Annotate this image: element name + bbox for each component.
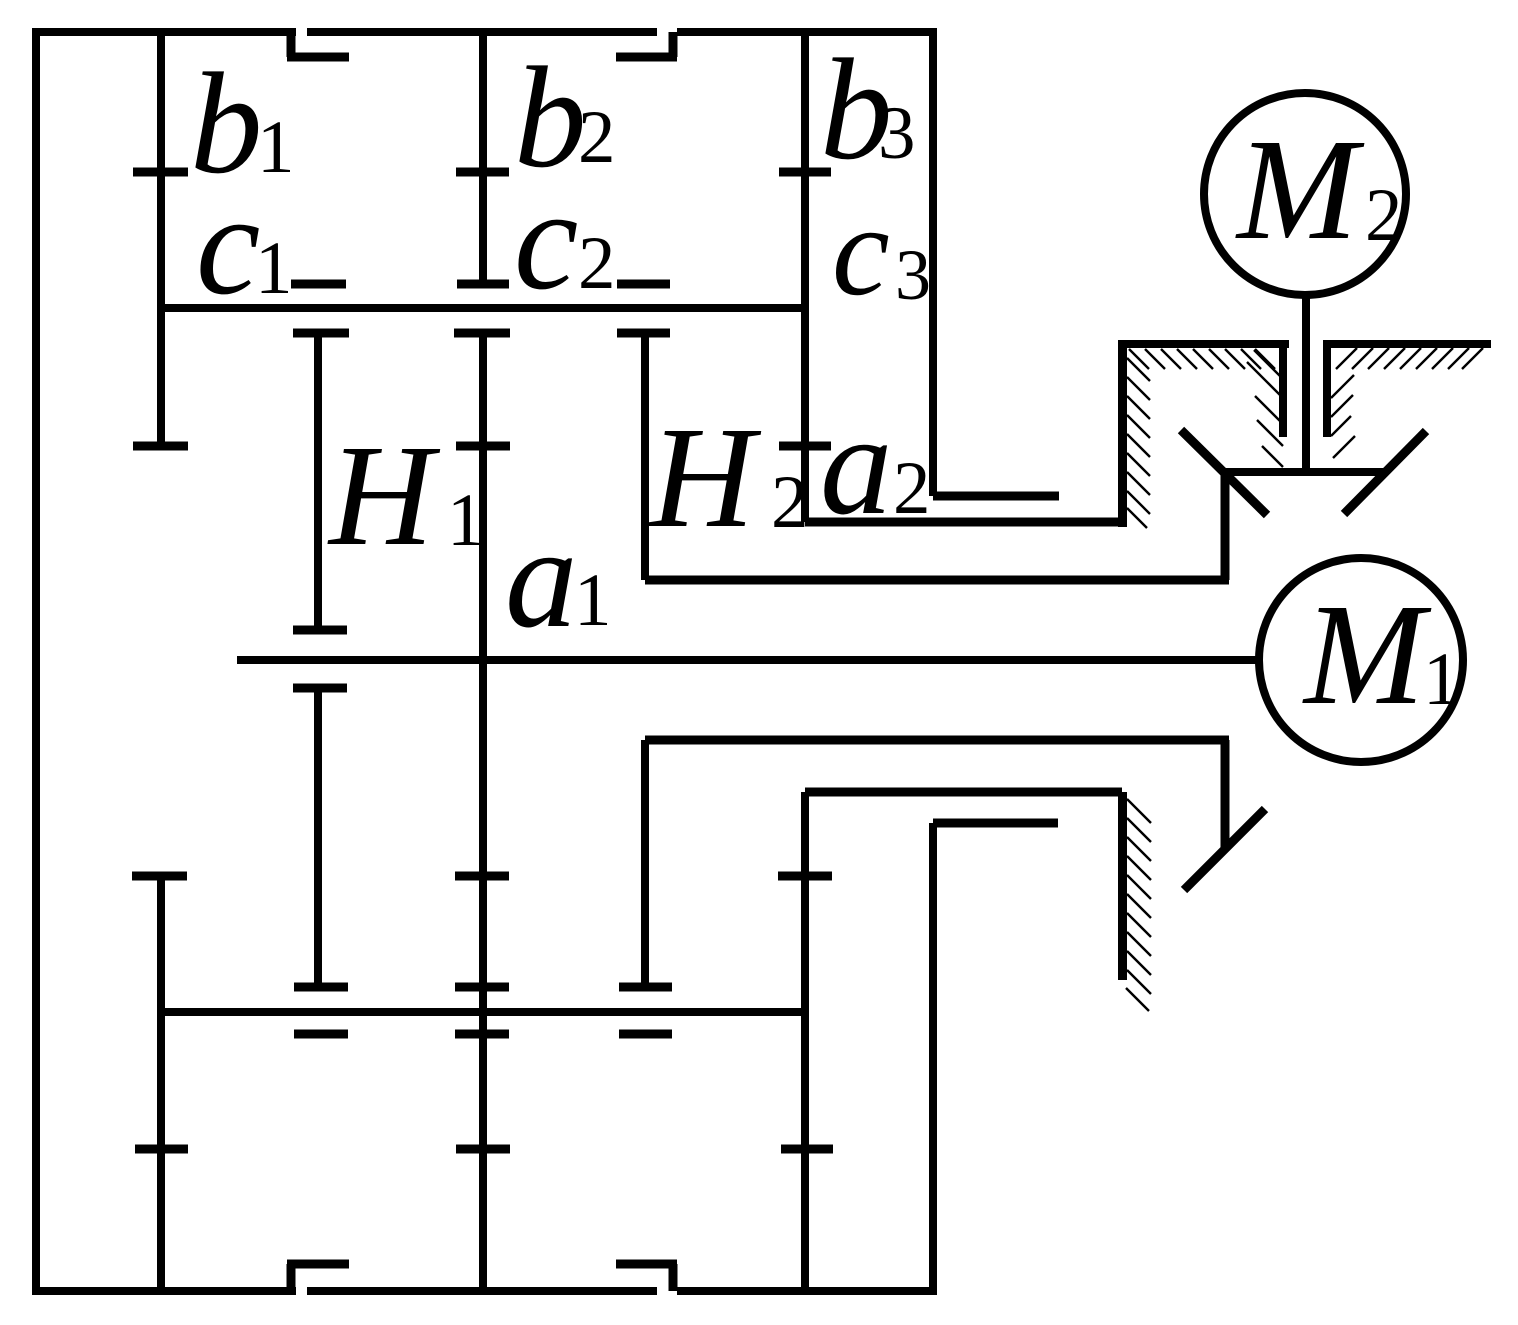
bottom notch 2 stub bbox=[616, 1260, 677, 1269]
top notch 2 step bbox=[669, 32, 678, 57]
gear b3 left tick crossbar row2 bbox=[779, 442, 831, 451]
bottom line segment 3 bbox=[677, 1287, 936, 1295]
lower column left bbox=[801, 792, 809, 1295]
svg-text:2: 2 bbox=[893, 447, 931, 530]
svg-text:M: M bbox=[1235, 110, 1365, 270]
M2 motor shaft bbox=[1302, 294, 1310, 472]
mesh dash after c2 bbox=[617, 280, 670, 289]
gear b3 left tick crossbar bbox=[779, 168, 831, 177]
svg-text:2: 2 bbox=[771, 461, 809, 544]
gear b3 box left edge bbox=[801, 28, 809, 522]
lower block line to wall bbox=[805, 788, 1122, 797]
a2 shaft stub from b3 right bbox=[933, 492, 1059, 501]
housing block left inner wall bbox=[1279, 344, 1287, 437]
clutch bar bbox=[1221, 468, 1385, 476]
a2 shaft line from b3 left bbox=[805, 518, 1122, 527]
svg-text:a: a bbox=[505, 498, 578, 658]
lower column right bbox=[929, 823, 937, 1295]
svg-text:M: M bbox=[1302, 575, 1432, 735]
carrier H2 riser to clutch bbox=[1221, 472, 1230, 580]
housing block left wall bbox=[1118, 344, 1127, 527]
central shaft tick row3 bbox=[455, 872, 509, 881]
planet pin 1 upper bbox=[314, 333, 322, 634]
brake riser from H1 line bbox=[1221, 740, 1230, 851]
central shaft tick row2 bbox=[456, 442, 510, 451]
carrier H2 T crossbar bbox=[617, 329, 670, 338]
svg-text:1: 1 bbox=[1423, 638, 1461, 721]
housing block left top bbox=[1118, 340, 1289, 348]
bottom line segment 1 bbox=[32, 1287, 296, 1295]
hatching right block left wall bbox=[1331, 375, 1355, 458]
lower block stub bbox=[933, 819, 1058, 828]
svg-text:H: H bbox=[327, 416, 441, 576]
svg-text:1: 1 bbox=[574, 559, 612, 642]
bottom notch 1 step bbox=[287, 1264, 296, 1291]
central shaft tick row6 bbox=[456, 1145, 510, 1154]
shaft b2 bottom T crossbar bbox=[457, 280, 509, 289]
carrier line c1-c2-c3 bbox=[161, 304, 805, 312]
shaft b1 lower T crossbar bbox=[132, 872, 187, 881]
housing top line segment 3 bbox=[677, 28, 936, 36]
planet pin 1 upper bottom T crossbar bbox=[293, 626, 347, 635]
brake slash bbox=[1184, 809, 1265, 890]
svg-text:c: c bbox=[832, 179, 890, 323]
svg-text:1: 1 bbox=[255, 227, 293, 310]
housing wall lower (M1 brake) bbox=[1118, 792, 1127, 980]
housing top line segment 1 bbox=[32, 28, 296, 36]
hatching lower wall bbox=[1126, 799, 1151, 1011]
bottom notch 1 stub bbox=[287, 1260, 349, 1269]
hatching left block right wall bbox=[1247, 350, 1283, 467]
shaft b1 lower tick bbox=[135, 1145, 188, 1154]
top notch 2 stub bbox=[616, 53, 677, 62]
mesh dash bottom right bbox=[619, 1030, 672, 1039]
svg-text:2: 2 bbox=[1365, 174, 1403, 257]
lower column left tick 1 bbox=[778, 872, 832, 881]
housing top line segment 2 bbox=[307, 28, 657, 36]
main axis shaft to M1 bbox=[237, 656, 1261, 664]
M2 motor circle bbox=[1204, 93, 1406, 295]
svg-text:1: 1 bbox=[257, 106, 295, 189]
mesh dash bottom left bbox=[294, 1030, 348, 1039]
hatching left block left wall bbox=[1127, 358, 1150, 528]
central shaft dash row5 bbox=[455, 1030, 509, 1039]
shaft b2 tick crossbar bbox=[456, 168, 509, 177]
svg-text:c: c bbox=[514, 160, 578, 320]
planet pin 2 T crossbar below axis bbox=[293, 684, 347, 693]
planet pin 2 bbox=[314, 688, 322, 991]
svg-text:1: 1 bbox=[447, 479, 485, 562]
hatching right block top bbox=[1336, 348, 1483, 369]
central shaft a1 T crossbar bbox=[454, 329, 510, 338]
top notch 1 step bbox=[287, 32, 296, 57]
long gear line bottom bbox=[161, 1008, 805, 1016]
carrier H2 horizontal line bbox=[645, 576, 1229, 585]
svg-text:a: a bbox=[820, 385, 893, 545]
bottom notch 2 step bbox=[669, 1264, 678, 1291]
carrier H2 vertical bbox=[641, 333, 649, 580]
mesh dash after c1 bbox=[291, 280, 346, 289]
top notch 1 stub bbox=[287, 53, 349, 62]
M1 motor circle bbox=[1259, 558, 1463, 762]
svg-text:2: 2 bbox=[578, 96, 616, 179]
shaft b1 tick crossbar bbox=[133, 168, 188, 177]
clutch left slash bbox=[1181, 430, 1267, 515]
carrier H1 vertical bbox=[641, 740, 649, 991]
shaft b1 lower bbox=[157, 872, 165, 1295]
svg-text:3: 3 bbox=[878, 92, 916, 175]
clutch right slash bbox=[1344, 431, 1426, 514]
svg-text:c: c bbox=[196, 165, 260, 325]
bottom line segment 2 bbox=[307, 1287, 657, 1295]
planet pin 1 upper T crossbar bbox=[293, 329, 349, 338]
housing block right inner wall bbox=[1323, 344, 1331, 437]
svg-text:3: 3 bbox=[895, 235, 931, 315]
svg-text:2: 2 bbox=[578, 222, 616, 305]
gear b3 box right edge bbox=[929, 28, 937, 496]
shaft b2 upper bbox=[479, 28, 487, 288]
hatching left block top bbox=[1129, 349, 1275, 369]
housing left frame vertical bbox=[32, 28, 40, 1295]
shaft b1 bottom T crossbar bbox=[133, 442, 188, 451]
shaft b1 upper bbox=[157, 28, 165, 449]
carrier H1 bottom T crossbar bbox=[619, 983, 672, 992]
central shaft tick row4 bbox=[455, 983, 509, 992]
lower column left tick 2 bbox=[781, 1145, 833, 1154]
svg-text:H: H bbox=[648, 398, 762, 558]
housing block right top bbox=[1323, 340, 1491, 348]
carrier H1 horizontal line bbox=[645, 736, 1229, 745]
central shaft a1 bbox=[479, 333, 487, 1295]
planet pin 2 bottom T crossbar bbox=[294, 983, 348, 992]
